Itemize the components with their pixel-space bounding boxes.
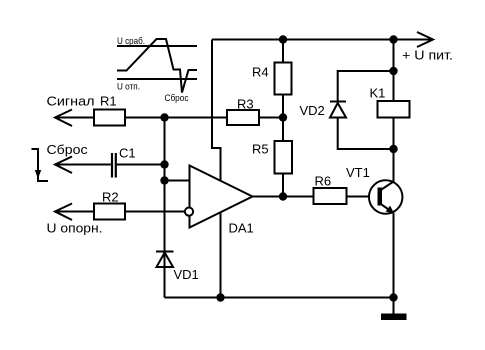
- node junction rail/R4: [279, 35, 287, 43]
- svg-text:R3: R3: [237, 97, 254, 112]
- waveform diagram: signal trace: [117, 39, 197, 93]
- wire R2 to inverting input: [125, 211, 185, 213]
- svg-text:Сброс: Сброс: [47, 142, 89, 157]
- wire VD2 bottom branch: [338, 118, 394, 150]
- svg-text:C1: C1: [119, 146, 136, 161]
- arrow input Сброс: [55, 157, 72, 174]
- wire rail to R4: [282, 40, 284, 63]
- node junction op-amp gnd pin: [216, 293, 224, 301]
- svg-text:U сраб.: U сраб.: [117, 36, 145, 46]
- op-amp supply wire (top): [212, 40, 221, 182]
- op-amp ground pin wire: [220, 213, 222, 298]
- wire R6 to base: [346, 196, 378, 198]
- ground: [381, 298, 407, 321]
- svg-text:K1: K1: [370, 86, 386, 101]
- svg-text:R4: R4: [252, 65, 269, 80]
- svg-text:U опорн.: U опорн.: [47, 221, 103, 236]
- svg-text:Сигнал: Сигнал: [47, 94, 95, 109]
- resistor R2: [94, 204, 125, 220]
- inverting input bubble: [185, 208, 193, 216]
- wire collector up: [393, 149, 395, 182]
- wire signal input: [55, 117, 94, 119]
- wire R3 to node: [259, 117, 283, 119]
- wire rail to K1: [393, 40, 395, 102]
- wire R1 to R3: [125, 117, 227, 119]
- falling edge symbol: [32, 149, 49, 181]
- transistor VT1: [369, 180, 403, 214]
- resistor R6: [314, 188, 347, 204]
- wire VD2 top branch: [338, 71, 394, 101]
- node junction rail/K1: [389, 35, 397, 43]
- wire R4 to node: [282, 95, 284, 143]
- arrow input Сигнал: [55, 110, 72, 127]
- node junction output/R5: [279, 192, 287, 200]
- node junction +input/bus: [160, 176, 168, 184]
- wire C1 to bus: [117, 164, 165, 166]
- op-amp DA1: [190, 166, 253, 228]
- relay coil K1: [378, 101, 410, 118]
- resistor R4: [275, 63, 292, 95]
- svg-text:DA1: DA1: [229, 221, 254, 236]
- wire reset input: [55, 164, 111, 166]
- wire ref input: [55, 211, 94, 213]
- svg-text:VD1: VD1: [174, 267, 199, 282]
- svg-text:R1: R1: [100, 94, 117, 109]
- wire op-amp output: [252, 196, 313, 198]
- arrow input U опорн.: [55, 204, 72, 221]
- node junction VD2 top: [389, 67, 397, 75]
- waveform diagram: lower threshold line: [117, 78, 197, 80]
- svg-text:+ U пит.: + U пит.: [402, 48, 453, 63]
- wire R5 to output node: [282, 174, 284, 197]
- supply rail arrowhead: [417, 32, 433, 47]
- node junction R1/bus: [160, 113, 168, 121]
- capacitor C1: [111, 153, 113, 178]
- top supply rail: [212, 39, 433, 41]
- resistor R3: [227, 110, 259, 125]
- bus wire (left vertical): [164, 118, 166, 298]
- svg-text:R5: R5: [252, 142, 269, 157]
- wire to non-inverting input: [165, 180, 191, 182]
- wire emitter down: [393, 213, 395, 298]
- diode VD1: [156, 252, 174, 268]
- svg-text:VD2: VD2: [300, 103, 325, 118]
- svg-text:Сброс: Сброс: [165, 93, 189, 103]
- resistor R1: [94, 110, 125, 126]
- svg-text:U отп.: U отп.: [117, 82, 140, 92]
- diode VD2: [330, 102, 346, 118]
- node junction ground: [389, 293, 397, 301]
- svg-text:R2: R2: [102, 190, 119, 205]
- svg-text:VT1: VT1: [346, 165, 370, 180]
- node junction R3/R4/R5: [279, 113, 287, 121]
- node junction C1/bus: [160, 160, 168, 168]
- node junction VD2 bottom: [389, 145, 397, 153]
- waveform diagram: upper threshold line: [117, 45, 197, 47]
- svg-text:R6: R6: [315, 174, 332, 189]
- resistor R5: [275, 141, 293, 174]
- wire K1 to node: [393, 118, 395, 150]
- bottom rail: [165, 297, 394, 299]
